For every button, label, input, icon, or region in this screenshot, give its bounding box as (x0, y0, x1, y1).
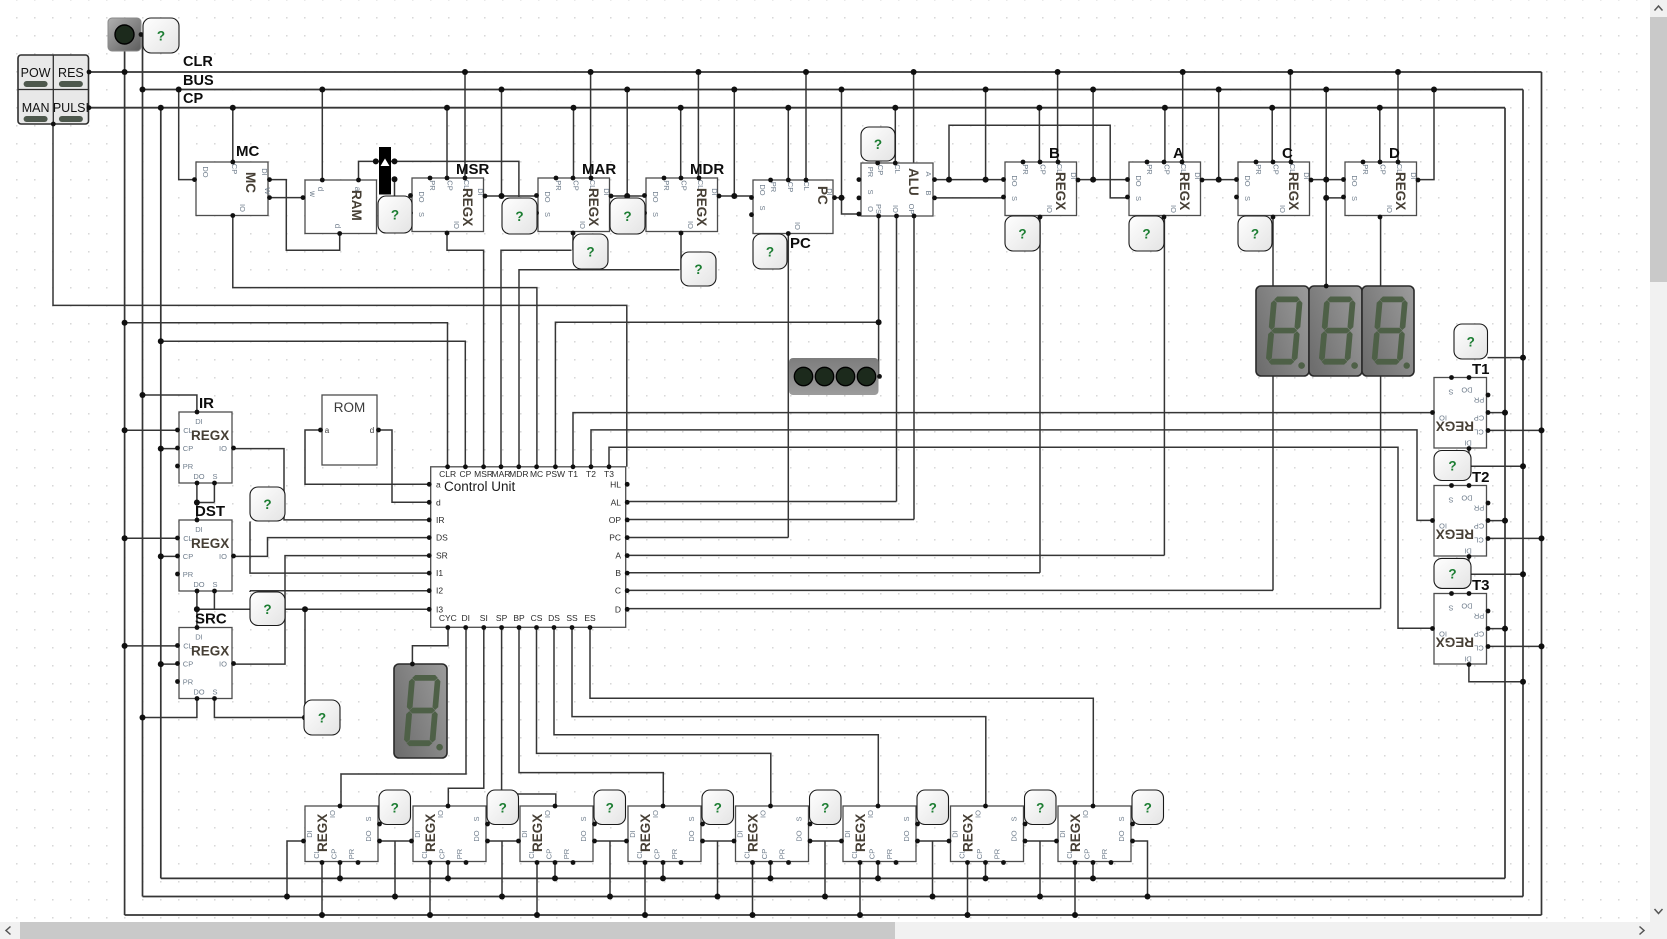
svg-text:REGX: REGX (586, 188, 601, 226)
svg-text:CP: CP (1082, 849, 1091, 859)
svg-text:ROM: ROM (334, 400, 366, 415)
wire MDR.IO to CU.MDR (680, 234, 682, 270)
wire PC.IO to CU.PC (787, 234, 789, 538)
svg-text:IO: IO (793, 222, 802, 230)
svg-text:?: ? (263, 497, 271, 512)
control unit (431, 467, 626, 628)
help probe bottom row (379, 790, 411, 825)
wire fuse lower pin drop (394, 179, 396, 197)
wire SRC.CL stub (125, 645, 178, 647)
svg-text:a: a (436, 479, 441, 489)
wire MC.W to RAM.w (270, 197, 304, 199)
help probe MAR-MDR (610, 198, 645, 234)
register T3 (REGX rotated 180) (1434, 594, 1487, 665)
wire bottom register 8 DI tap (1024, 840, 1057, 842)
svg-text:DS: DS (436, 533, 448, 543)
svg-text:PR: PR (1473, 612, 1484, 621)
svg-text:S: S (1010, 196, 1019, 201)
left vertical BUS net (142, 36, 144, 897)
svg-text:S: S (1448, 604, 1453, 613)
register bottom 8 (REGX rotated 270) (1058, 806, 1131, 862)
svg-text:T2: T2 (586, 469, 596, 479)
svg-text:?: ? (1144, 800, 1152, 815)
wire bottom register 8 CL drop (1074, 862, 1076, 916)
junction dots (122, 69, 128, 75)
svg-text:PC: PC (609, 533, 621, 543)
left vertical CP net (160, 108, 162, 879)
wire MDR.CL riser (697, 72, 699, 178)
svg-text:BP: BP (513, 613, 525, 623)
help probe bottom row (917, 790, 949, 825)
wire D.IO to CU.D (1380, 216, 1382, 609)
svg-text:?: ? (1467, 335, 1475, 350)
svg-text:CP: CP (445, 180, 454, 190)
svg-text:CP: CP (571, 180, 580, 190)
wire B.IO to CU.B (1039, 216, 1041, 573)
svg-text:CP: CP (183, 444, 193, 453)
svg-text:S: S (651, 212, 660, 217)
wire CU.T3 to T3.IO (609, 447, 1432, 628)
svg-text:CP: CP (1474, 414, 1484, 423)
svg-text:DI: DI (195, 417, 203, 426)
svg-text:?: ? (263, 602, 271, 617)
wire ALU.A to B.DO (935, 179, 1003, 181)
svg-text:PR: PR (428, 180, 437, 191)
wire ALU.CP riser (894, 108, 896, 163)
wire IR.IO to CU.IR (234, 449, 430, 520)
help probe ALU (861, 127, 895, 161)
svg-text:PR: PR (1361, 164, 1370, 175)
wire bottom register 3 CP drop (554, 862, 556, 879)
svg-text:REGX: REGX (191, 536, 229, 551)
svg-text:DO: DO (364, 830, 373, 841)
wire bottom register 8 DO tap (1132, 841, 1148, 897)
help probe bottom row (702, 790, 734, 825)
wire T3.CP stub (1488, 628, 1505, 630)
svg-text:?: ? (515, 209, 523, 224)
svg-text:MC: MC (243, 172, 258, 193)
wire MDR.CP riser (680, 108, 682, 178)
svg-text:DO: DO (651, 191, 660, 202)
svg-text:?: ? (821, 800, 829, 815)
wire D.CL riser (1397, 72, 1399, 162)
svg-text:PS: PS (874, 204, 883, 214)
svg-text:PR: PR (183, 570, 194, 579)
wire ALU.CL riser (913, 72, 915, 163)
svg-text:PR: PR (1100, 848, 1109, 859)
register bottom 2 (REGX rotated 270) (413, 806, 486, 862)
wire C.CL riser (1289, 72, 1291, 162)
svg-text:?: ? (1448, 459, 1456, 474)
svg-text:CLR: CLR (183, 54, 213, 70)
wire D.S stub (1326, 197, 1343, 199)
svg-text:S: S (1350, 196, 1359, 201)
svg-text:DST: DST (195, 503, 225, 520)
svg-text:T1: T1 (1472, 361, 1490, 378)
svg-text:B: B (924, 190, 933, 195)
wire DST.DO/S to SRC.DI and CU.I3 (196, 591, 198, 628)
7-segment display digit M (1309, 286, 1362, 376)
svg-text:ES: ES (584, 613, 596, 623)
wire A.IO to CU.A (1163, 216, 1165, 556)
svg-text:IO: IO (452, 221, 461, 229)
svg-text:S: S (902, 816, 911, 821)
svg-text:PR: PR (866, 167, 875, 178)
svg-text:?: ? (1018, 227, 1026, 242)
help probe A (1129, 216, 1164, 251)
svg-text:DI: DI (1464, 655, 1472, 664)
wire IR.CP stub (161, 448, 178, 450)
7-segment display digit H (1256, 286, 1309, 376)
svg-text:PR: PR (183, 678, 194, 687)
svg-text:CYC: CYC (439, 613, 457, 623)
wire BUS tap to MC.DO (179, 90, 195, 180)
svg-text:REGX: REGX (530, 814, 545, 852)
wire PC.CP riser (787, 108, 789, 180)
svg-text:?: ? (929, 800, 937, 815)
svg-text:REGX: REGX (1393, 172, 1408, 210)
svg-text:DI: DI (951, 830, 960, 838)
bus line CLR (90, 71, 1542, 73)
svg-text:O: O (866, 206, 875, 212)
svg-text:RES: RES (58, 66, 84, 80)
svg-text:DO: DO (472, 830, 481, 841)
svg-text:S: S (687, 816, 696, 821)
bottom bus BUS return (143, 896, 1524, 898)
wire MSR.IO to CU.MSR (447, 234, 484, 467)
wire SRC.DO to BUS net (143, 699, 197, 718)
svg-text:CP: CP (437, 849, 446, 859)
svg-text:S: S (212, 688, 217, 697)
wire ALU.OP to CU.OP (913, 216, 915, 520)
input switch PSW (4 round buttons) (789, 358, 879, 395)
help probe T2 (1434, 451, 1471, 481)
svg-text:CP: CP (867, 849, 876, 859)
svg-text:DO: DO (193, 580, 204, 589)
svg-text:?: ? (1448, 566, 1456, 581)
wire B.DI to A.DO with BUS tap (1078, 179, 1129, 181)
wire T1.DI loop (1469, 449, 1523, 466)
svg-text:CL: CL (1474, 644, 1484, 653)
svg-text:W: W (263, 187, 272, 195)
svg-text:DI: DI (1464, 547, 1472, 556)
wire MSR.DI MAR.DO bus tap (486, 195, 537, 197)
svg-text:DI: DI (843, 830, 852, 838)
svg-text:IO: IO (1385, 205, 1394, 213)
svg-text:CP: CP (1378, 164, 1387, 174)
svg-text:REGX: REGX (1436, 635, 1474, 650)
wire bottom register 2 CL drop (429, 862, 431, 916)
wire bottom register 4 CP drop (662, 862, 664, 879)
svg-text:CP: CP (975, 849, 984, 859)
svg-text:I2: I2 (436, 586, 443, 596)
wire CU.SS to register SS (572, 628, 986, 807)
svg-text:S: S (472, 816, 481, 821)
svg-text:REGX: REGX (315, 814, 330, 852)
svg-text:CP: CP (183, 660, 193, 669)
svg-text:CP: CP (1162, 164, 1171, 174)
help probe RAM-MSR (378, 196, 412, 233)
wire I1 feed (250, 522, 429, 574)
wire ALU.B to B.S (935, 197, 1003, 199)
svg-text:MDR: MDR (509, 469, 528, 479)
svg-text:S: S (1243, 196, 1252, 201)
wire DST.CP stub (161, 555, 178, 557)
svg-text:IO: IO (219, 444, 227, 453)
svg-text:MSR: MSR (474, 469, 493, 479)
wire CU.SI to register SI (448, 628, 484, 807)
svg-text:S: S (1117, 816, 1126, 821)
svg-text:?: ? (623, 209, 631, 224)
wire MAR.CL riser (590, 72, 592, 178)
svg-text:DO: DO (1461, 386, 1472, 395)
bus line BUS (143, 89, 1524, 91)
wire ROM.d to CU.d (379, 430, 430, 502)
help probe MSR-MAR (502, 198, 537, 234)
svg-text:REGX: REGX (460, 188, 475, 226)
svg-text:DI: DI (195, 633, 203, 642)
svg-text:DO: DO (193, 472, 204, 481)
svg-text:PR: PR (1254, 164, 1263, 175)
svg-text:REGX: REGX (191, 428, 229, 443)
memory RAM (305, 180, 377, 234)
svg-text:DO: DO (1010, 830, 1019, 841)
svg-text:IO: IO (1278, 205, 1287, 213)
svg-text:CP: CP (1271, 164, 1280, 174)
svg-text:POW: POW (21, 66, 51, 80)
svg-text:IO: IO (1045, 205, 1054, 213)
svg-text:d: d (333, 224, 342, 228)
wire T3.DI loop (1469, 665, 1523, 682)
register bottom 1 (REGX rotated 270) (305, 806, 378, 862)
svg-text:PR: PR (993, 848, 1002, 859)
wire ALU.IO to CU.AL (896, 216, 898, 502)
vertical scrollbar (1650, 0, 1667, 922)
wire MC.CP riser (232, 108, 234, 162)
svg-text:?: ? (157, 29, 165, 44)
svg-text:REGX: REGX (1436, 419, 1474, 434)
svg-text:IO: IO (1169, 205, 1178, 213)
wire bottom register 3 CL drop (536, 862, 538, 916)
svg-text:S: S (1134, 196, 1143, 201)
wire bottom register 5 DI tap (701, 840, 734, 842)
wire CU.CP feed (161, 341, 466, 467)
svg-text:DI: DI (305, 830, 314, 838)
svg-text:PC: PC (815, 186, 830, 205)
svg-text:S: S (1010, 816, 1019, 821)
svg-text:DO: DO (193, 688, 204, 697)
wire C.DI to D.DO with BUS/display tap (1311, 179, 1344, 181)
svg-text:CP: CP (679, 180, 688, 190)
svg-text:MSR: MSR (456, 161, 490, 178)
wire ALU.O to BUS (842, 90, 859, 215)
svg-text:OP: OP (609, 515, 622, 525)
help probe PC (753, 234, 787, 269)
alu ALU (861, 163, 933, 216)
svg-text:A: A (615, 551, 621, 561)
wire bottom register 6 CP drop (877, 862, 879, 879)
left vertical CLR net (124, 51, 126, 915)
help probe bottom row (810, 790, 842, 825)
wire MAR.CP riser (573, 108, 575, 178)
svg-text:T2: T2 (1472, 469, 1490, 486)
wire DST.IO to CU.DS (234, 538, 430, 557)
wire T2.DI loop (1469, 557, 1523, 574)
help probe C (1238, 216, 1272, 251)
svg-text:C: C (1282, 145, 1293, 162)
svg-text:?: ? (694, 262, 702, 277)
help probe bottom row (1025, 790, 1057, 825)
svg-text:?: ? (1251, 227, 1259, 242)
wire MC.IO to CU.MC (233, 216, 537, 467)
svg-text:MAR: MAR (582, 161, 616, 178)
wire PULSI to CU corner (53, 124, 627, 467)
register bottom 5 (REGX rotated 270) (736, 806, 809, 862)
svg-text:CP: CP (652, 849, 661, 859)
svg-text:PULSI: PULSI (53, 101, 89, 115)
svg-text:SP: SP (496, 613, 508, 623)
svg-text:A: A (1173, 145, 1184, 162)
svg-text:OP: OP (907, 204, 916, 215)
svg-text:REGX: REGX (1053, 172, 1068, 210)
svg-text:?: ? (499, 800, 507, 815)
help probe bottom row (594, 790, 626, 825)
svg-text:BUS: BUS (183, 73, 214, 89)
svg-text:S: S (866, 189, 875, 194)
svg-text:PSW: PSW (546, 469, 565, 479)
wire T1.CL stub (1488, 429, 1542, 431)
svg-text:PR: PR (1473, 504, 1484, 513)
svg-text:DI: DI (1464, 439, 1472, 448)
svg-text:ALU: ALU (906, 168, 921, 196)
bottom bus CP return (161, 877, 1505, 879)
svg-text:?: ? (391, 208, 399, 223)
svg-text:CP: CP (183, 552, 193, 561)
right vertical CLR (1541, 72, 1543, 915)
fuse (black bar with triangle) (379, 147, 391, 195)
svg-text:MC: MC (236, 143, 259, 160)
wire node I3 drop to probe (304, 609, 306, 717)
svg-text:PR: PR (1145, 164, 1154, 175)
svg-text:REGX: REGX (423, 814, 438, 852)
svg-text:PR: PR (347, 848, 356, 859)
wire bottom register 2 CP drop (447, 862, 449, 879)
svg-text:D: D (615, 604, 621, 614)
svg-text:DI: DI (413, 830, 422, 838)
svg-text:DO: DO (201, 166, 210, 177)
wire bottom register 7 CL drop (967, 862, 969, 916)
svg-text:PR: PR (455, 848, 464, 859)
svg-text:DO: DO (1134, 175, 1143, 186)
svg-text:D: D (1389, 145, 1400, 162)
wire MDR.DI PC.DO bus tap (719, 195, 752, 197)
svg-text:S: S (543, 212, 552, 217)
svg-text:CP: CP (230, 164, 239, 174)
svg-text:IO: IO (891, 205, 900, 213)
svg-text:B: B (615, 568, 621, 578)
push button (manual clock) (108, 18, 141, 51)
wire bottom register 1 CP drop (339, 862, 341, 879)
help probe T3 (1434, 558, 1471, 588)
svg-text:MAR: MAR (492, 469, 511, 479)
wire B.CP riser (1038, 108, 1040, 162)
svg-text:CP: CP (786, 182, 795, 192)
wire bottom register 3 DI tap (486, 840, 519, 842)
help button top-left (143, 18, 179, 53)
help probe bottom row (1132, 790, 1164, 825)
svg-text:PR: PR (769, 182, 778, 193)
svg-text:CP: CP (183, 91, 203, 107)
svg-text:PR: PR (670, 848, 679, 859)
svg-text:DI: DI (520, 830, 529, 838)
wire bottom register 2 DI tap (378, 840, 412, 842)
register bottom 3 (REGX rotated 270) (520, 806, 593, 862)
wire MSR.CP riser (446, 108, 448, 178)
wire MSR.CL riser (464, 72, 466, 178)
svg-text:DO: DO (758, 184, 767, 195)
wire SRC.CP stub (161, 663, 178, 665)
svg-text:DI: DI (260, 168, 269, 176)
svg-text:I1: I1 (436, 568, 443, 578)
svg-text:PR: PR (1021, 164, 1030, 175)
svg-text:DO: DO (417, 191, 426, 202)
svg-text:DO: DO (1350, 175, 1359, 186)
svg-text:?: ? (391, 800, 399, 815)
svg-text:CP: CP (544, 849, 553, 859)
svg-text:C: C (615, 586, 621, 596)
svg-text:REGX: REGX (961, 814, 976, 852)
wire bottom register 6 DI tap (809, 840, 842, 842)
svg-text:MAN: MAN (22, 101, 50, 115)
wire bottom register 1 DI tap (287, 841, 304, 897)
svg-text:DO: DO (795, 830, 804, 841)
help probe bottom row (487, 790, 519, 825)
wire CU.CS to register CS (537, 628, 771, 807)
wire PC.DI stub (835, 197, 842, 199)
svg-text:CP: CP (876, 165, 885, 175)
svg-text:S: S (1448, 388, 1453, 397)
wire bottom register 5 CL drop (752, 862, 754, 916)
svg-text:DO: DO (1117, 830, 1126, 841)
svg-text:CL: CL (893, 164, 902, 174)
svg-text:IO: IO (219, 660, 227, 669)
wire bottom register 6 CL drop (859, 862, 861, 916)
wire RAM.a via fuse to MSR net (359, 161, 519, 197)
svg-text:DI: DI (736, 830, 745, 838)
help probe SRC (304, 700, 340, 735)
svg-text:IR: IR (199, 395, 214, 412)
bus line CP (90, 107, 1505, 109)
wire C.CP riser (1271, 108, 1273, 162)
svg-text:IO: IO (686, 221, 695, 229)
wire BUS tap ALU-B (985, 90, 987, 180)
svg-text:DO: DO (1010, 175, 1019, 186)
wire D.DI to BUS (1418, 90, 1434, 180)
svg-text:REGX: REGX (191, 644, 229, 659)
svg-text:MC: MC (530, 469, 543, 479)
svg-text:?: ? (1036, 800, 1044, 815)
wire CU.T1 to T1.IO (573, 413, 1432, 467)
svg-text:DO: DO (1461, 602, 1472, 611)
svg-text:REGX: REGX (1436, 527, 1474, 542)
svg-text:?: ? (318, 711, 326, 726)
wire CU.T2 to T2.IO (591, 430, 1432, 521)
svg-text:IO: IO (238, 204, 247, 212)
svg-text:IR: IR (436, 515, 445, 525)
7-segment display digit L (1362, 286, 1414, 376)
svg-text:CP: CP (1474, 522, 1484, 531)
wire IR.DI feed from BUS net (143, 395, 197, 412)
